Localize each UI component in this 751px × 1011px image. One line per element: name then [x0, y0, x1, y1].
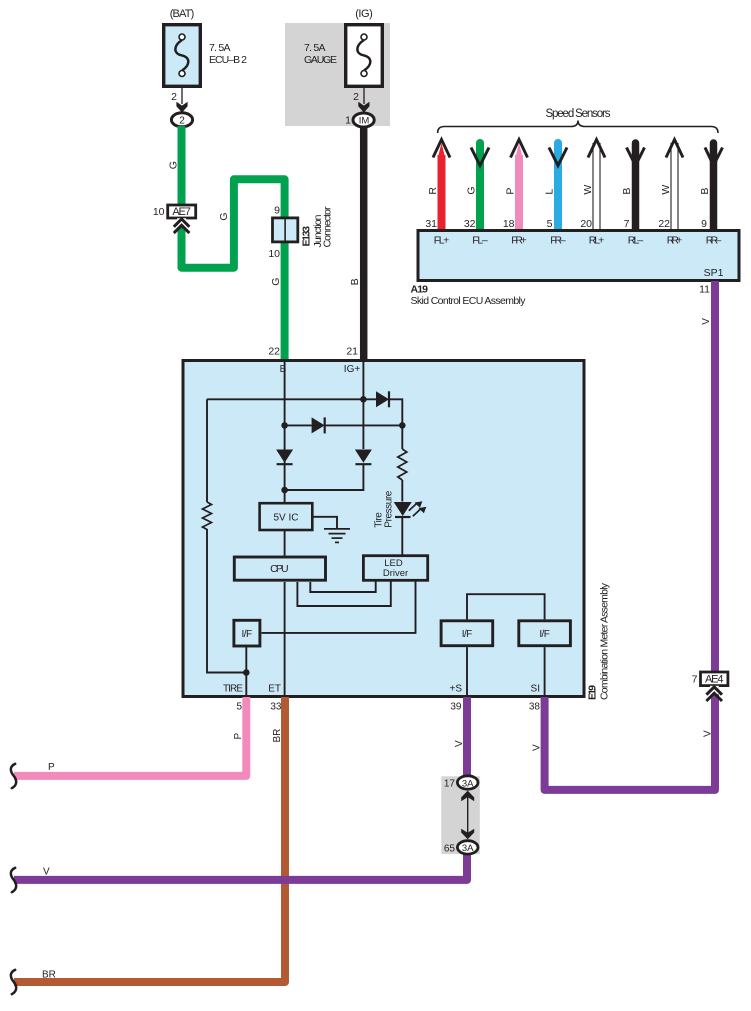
- svg-text:CPU: CPU: [270, 563, 289, 575]
- svg-text:W: W: [660, 185, 672, 195]
- svg-text:10: 10: [268, 248, 280, 260]
- svg-text:Connector: Connector: [322, 206, 334, 248]
- svg-text:V: V: [703, 730, 714, 737]
- svg-text:FR+: FR+: [511, 235, 527, 247]
- svg-text:38: 38: [529, 702, 541, 713]
- svg-text:ECU–B 2: ECU–B 2: [209, 54, 247, 66]
- svg-text:Speed Sensors: Speed Sensors: [546, 108, 611, 120]
- svg-text:21: 21: [346, 346, 358, 358]
- svg-text:B: B: [621, 188, 633, 195]
- svg-text:9: 9: [701, 218, 707, 230]
- svg-text:E133: E133: [301, 226, 313, 247]
- svg-text:(IG): (IG): [355, 8, 373, 20]
- svg-text:5: 5: [547, 218, 553, 230]
- svg-text:Combination Meter Assembly: Combination Meter Assembly: [599, 582, 611, 700]
- svg-text:BR: BR: [42, 970, 56, 981]
- svg-text:5V IC: 5V IC: [273, 512, 298, 523]
- svg-text:22: 22: [658, 218, 670, 230]
- svg-text:AE4: AE4: [705, 674, 724, 686]
- svg-text:TIRE: TIRE: [223, 684, 243, 695]
- svg-text:P: P: [505, 188, 517, 195]
- svg-text:2: 2: [179, 116, 185, 127]
- svg-text:9: 9: [274, 205, 280, 217]
- svg-text:GAUGE: GAUGE: [304, 54, 337, 66]
- svg-text:1: 1: [345, 115, 351, 127]
- svg-text:P: P: [233, 733, 244, 740]
- svg-text:FL+: FL+: [434, 235, 450, 247]
- svg-text:33: 33: [270, 702, 282, 713]
- svg-text:18: 18: [503, 218, 515, 230]
- svg-text:I/F: I/F: [242, 629, 253, 640]
- svg-text:31: 31: [425, 218, 437, 230]
- svg-text:Pressure: Pressure: [384, 490, 395, 527]
- svg-text:G: G: [218, 212, 230, 220]
- svg-text:AE7: AE7: [172, 206, 191, 218]
- svg-text:2: 2: [171, 91, 177, 103]
- svg-text:17: 17: [444, 779, 456, 790]
- svg-text:FR–: FR–: [550, 235, 566, 247]
- svg-text:V: V: [701, 318, 712, 325]
- svg-text:+S: +S: [449, 684, 462, 695]
- svg-text:R: R: [427, 187, 439, 195]
- svg-text:W: W: [582, 185, 594, 195]
- svg-text:IM: IM: [359, 116, 370, 127]
- svg-text:L: L: [544, 189, 556, 195]
- svg-text:Driver: Driver: [383, 568, 408, 579]
- svg-text:39: 39: [450, 702, 462, 713]
- svg-text:(BAT): (BAT): [170, 8, 195, 20]
- svg-text:10: 10: [153, 206, 165, 218]
- svg-text:P: P: [48, 762, 55, 773]
- svg-text:11: 11: [699, 284, 710, 296]
- svg-text:B: B: [699, 188, 711, 195]
- svg-text:G: G: [466, 186, 478, 194]
- svg-text:RR+: RR+: [667, 235, 683, 247]
- svg-text:20: 20: [580, 218, 592, 230]
- svg-text:32: 32: [464, 218, 476, 230]
- svg-text:B: B: [349, 278, 361, 285]
- svg-text:V: V: [532, 744, 543, 751]
- svg-text:IG+: IG+: [344, 364, 361, 375]
- svg-text:3A: 3A: [462, 843, 474, 854]
- svg-text:7: 7: [624, 218, 630, 230]
- svg-text:SP1: SP1: [704, 267, 724, 279]
- svg-text:2: 2: [353, 91, 359, 103]
- svg-text:7. 5A: 7. 5A: [209, 42, 231, 54]
- svg-text:E19: E19: [587, 685, 599, 700]
- svg-text:SI: SI: [531, 684, 540, 695]
- svg-text:RL+: RL+: [589, 235, 605, 247]
- svg-text:FL–: FL–: [472, 235, 488, 247]
- svg-text:A19: A19: [411, 284, 429, 296]
- svg-text:7: 7: [692, 674, 698, 686]
- svg-text:22: 22: [268, 346, 280, 358]
- svg-text:RL–: RL–: [628, 235, 644, 247]
- svg-text:RR–: RR–: [706, 235, 722, 247]
- svg-text:G: G: [270, 278, 282, 286]
- svg-text:V: V: [454, 740, 465, 747]
- svg-text:B: B: [280, 364, 287, 375]
- svg-text:Skid Control ECU Assembly: Skid Control ECU Assembly: [411, 295, 527, 307]
- svg-text:BR: BR: [272, 729, 283, 743]
- svg-text:65: 65: [444, 843, 456, 854]
- svg-text:I/F: I/F: [462, 629, 473, 640]
- svg-text:ET: ET: [268, 684, 281, 695]
- svg-text:G: G: [168, 161, 180, 169]
- svg-text:3A: 3A: [462, 778, 474, 789]
- svg-text:V: V: [43, 867, 50, 878]
- svg-text:7. 5A: 7. 5A: [304, 42, 326, 54]
- svg-text:5: 5: [236, 702, 242, 713]
- svg-text:I/F: I/F: [539, 629, 550, 640]
